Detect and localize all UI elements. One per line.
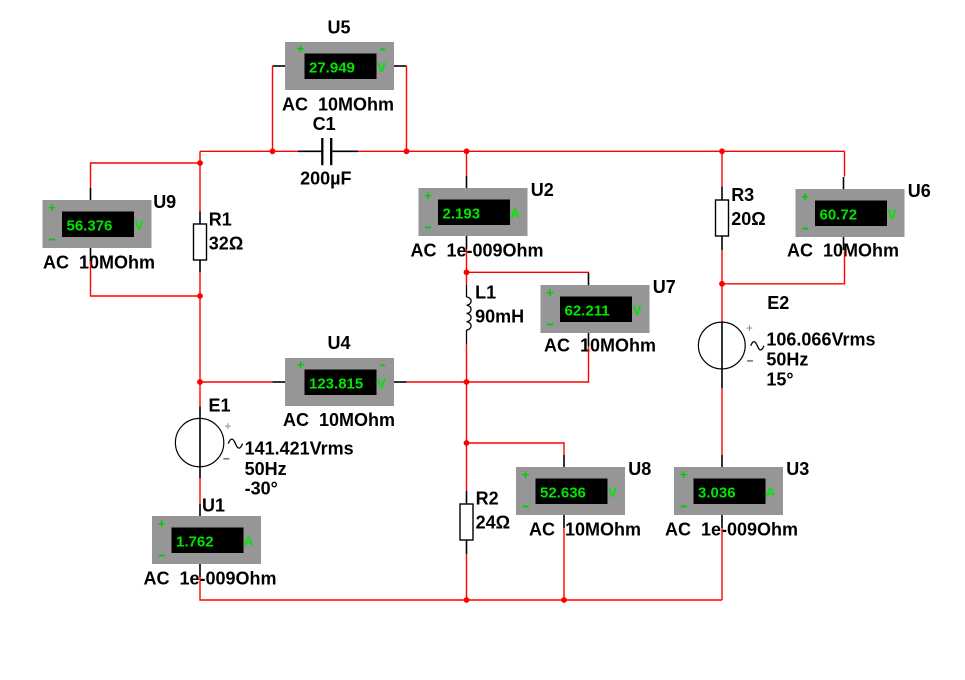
svg-text:+: + <box>424 188 432 203</box>
wire left branch R1 to E1 <box>199 272 201 406</box>
wire U6 drop from top rail <box>844 151 846 176</box>
svg-text:L1: L1 <box>475 283 496 303</box>
svg-text:20Ω: 20Ω <box>731 209 765 229</box>
multimeter U3 <box>665 455 809 539</box>
svg-text:62.211: 62.211 <box>565 302 610 319</box>
wire left branch E1 to U1 <box>199 478 201 504</box>
node U4 left junction <box>197 379 203 385</box>
svg-text:U5: U5 <box>328 17 351 37</box>
svg-text:+: + <box>746 321 753 335</box>
multimeter U5 <box>273 17 407 114</box>
svg-text:27.949: 27.949 <box>309 59 355 76</box>
svg-text:AC 10MOhm: AC 10MOhm <box>544 335 656 355</box>
svg-text:U7: U7 <box>653 277 676 297</box>
multimeter U9 <box>43 188 177 273</box>
node U9 top junction <box>197 160 203 166</box>
svg-text:106.066Vrms: 106.066Vrms <box>766 329 875 349</box>
multimeter U7 <box>541 273 676 355</box>
wire top rail right segment <box>358 150 845 152</box>
node U4 right junction <box>464 379 470 385</box>
capacitor C1 <box>298 114 358 189</box>
svg-text:AC 1e-009Ohm: AC 1e-009Ohm <box>144 568 277 588</box>
svg-text:V: V <box>134 218 143 233</box>
svg-text:V: V <box>887 207 896 222</box>
wire top rail left segment <box>200 150 298 152</box>
AC source E1 <box>175 396 353 499</box>
svg-text:C1: C1 <box>313 114 336 134</box>
svg-text:141.421Vrms: 141.421Vrms <box>245 439 354 459</box>
node R3 bottom junction <box>719 281 725 287</box>
resistor R1 <box>194 209 244 272</box>
multimeter U8 <box>516 455 651 539</box>
svg-text:R1: R1 <box>209 209 232 229</box>
multimeter U4 <box>273 333 407 430</box>
wire U5 right lead <box>406 66 408 151</box>
svg-text:E1: E1 <box>209 396 231 416</box>
svg-text:+: + <box>297 41 305 56</box>
node U7 top junction <box>464 269 470 275</box>
node U5 left junction <box>270 148 276 154</box>
svg-text:24Ω: 24Ω <box>476 513 510 533</box>
svg-text:90mH: 90mH <box>475 306 524 326</box>
svg-text:U1: U1 <box>202 496 225 516</box>
wire U8 top link <box>467 443 565 455</box>
svg-text:50Hz: 50Hz <box>766 349 808 369</box>
svg-text:200µF: 200µF <box>300 169 351 189</box>
wire left branch R1 top <box>199 151 201 212</box>
wire mid branch R2 to rail <box>466 554 468 600</box>
svg-text:E2: E2 <box>767 293 789 313</box>
wire U6 bottom link <box>722 250 845 284</box>
svg-text:+: + <box>546 285 554 300</box>
svg-text:U8: U8 <box>628 459 651 479</box>
wire left branch U1 to rail <box>200 577 467 600</box>
svg-text:52.636: 52.636 <box>540 484 586 501</box>
wire right branch U3 to rail <box>721 528 723 600</box>
svg-text:15°: 15° <box>766 369 793 389</box>
resistor R3 <box>716 185 766 250</box>
svg-text:V: V <box>377 376 386 391</box>
svg-text:AC 10MOhm: AC 10MOhm <box>529 519 641 539</box>
svg-text:R2: R2 <box>476 489 499 509</box>
wire U7 bottom link <box>467 346 589 382</box>
wire mid branch U2 top <box>466 151 468 176</box>
wire right branch R3 to E2 <box>721 250 723 322</box>
svg-text:60.72: 60.72 <box>820 206 858 223</box>
multimeter U1 <box>144 496 277 589</box>
wire U7 top link <box>467 271 589 274</box>
node R2 bottom junction <box>464 597 470 603</box>
wire right branch E2 to U3 <box>721 388 723 455</box>
wire U4 left link <box>200 381 273 383</box>
svg-text:V: V <box>377 60 386 75</box>
svg-text:U9: U9 <box>153 192 176 212</box>
svg-text:56.376: 56.376 <box>67 217 113 234</box>
svg-text:+: + <box>224 419 231 433</box>
svg-text:50Hz: 50Hz <box>245 459 287 479</box>
inductor L1 <box>467 283 525 344</box>
svg-text:32Ω: 32Ω <box>209 233 243 253</box>
svg-text:V: V <box>608 485 617 500</box>
svg-text:-30°: -30° <box>245 479 278 499</box>
node mid top junction <box>464 148 470 154</box>
node U8 bottom junction <box>561 597 567 603</box>
resistor R2 <box>460 489 510 555</box>
node U5 right junction <box>404 148 410 154</box>
wire U9 bottom link <box>91 261 201 296</box>
wire right branch R3 top <box>721 151 723 187</box>
svg-text:+: + <box>297 357 305 372</box>
svg-text:+: + <box>680 467 688 482</box>
svg-text:U4: U4 <box>328 333 351 353</box>
svg-text:2.193: 2.193 <box>443 205 481 222</box>
svg-text:A: A <box>766 485 776 500</box>
wire U9 top link <box>91 163 201 188</box>
svg-text:+: + <box>522 467 530 482</box>
node R3 top junction <box>719 148 725 154</box>
svg-text:R3: R3 <box>731 185 754 205</box>
wire mid branch L1 to node <box>466 344 468 443</box>
svg-text:123.815: 123.815 <box>309 375 363 392</box>
wire U4 right link <box>407 381 467 383</box>
wire mid branch U2 to L1 <box>466 249 468 285</box>
multimeter U2 <box>411 176 554 260</box>
svg-text:AC 10MOhm: AC 10MOhm <box>282 95 394 115</box>
svg-text:+: + <box>801 189 809 204</box>
svg-text:+: + <box>158 516 166 531</box>
svg-text:A: A <box>510 206 520 221</box>
wire bottom rail mid <box>467 599 723 601</box>
svg-text:U6: U6 <box>908 181 931 201</box>
svg-text:3.036: 3.036 <box>698 484 736 501</box>
multimeter U6 <box>787 177 931 260</box>
svg-text:U3: U3 <box>786 459 809 479</box>
node U8 top junction <box>464 440 470 446</box>
svg-text:AC 1e-009Ohm: AC 1e-009Ohm <box>665 519 798 539</box>
svg-text:+: + <box>48 200 56 215</box>
svg-text:AC 1e-009Ohm: AC 1e-009Ohm <box>411 240 544 260</box>
svg-text:AC 10MOhm: AC 10MOhm <box>43 253 155 273</box>
svg-text:A: A <box>244 534 254 549</box>
AC source E2 <box>698 293 875 389</box>
node U9 bottom junction <box>197 293 203 299</box>
svg-text:V: V <box>632 303 641 318</box>
wire mid branch R2 top <box>466 443 468 491</box>
svg-text:AC 10MOhm: AC 10MOhm <box>787 240 899 260</box>
svg-text:AC 10MOhm: AC 10MOhm <box>283 410 395 430</box>
svg-text:1.762: 1.762 <box>176 533 214 550</box>
svg-text:U2: U2 <box>531 180 554 200</box>
wire U8 bottom link <box>563 528 565 600</box>
wire U5 left lead <box>272 66 274 151</box>
